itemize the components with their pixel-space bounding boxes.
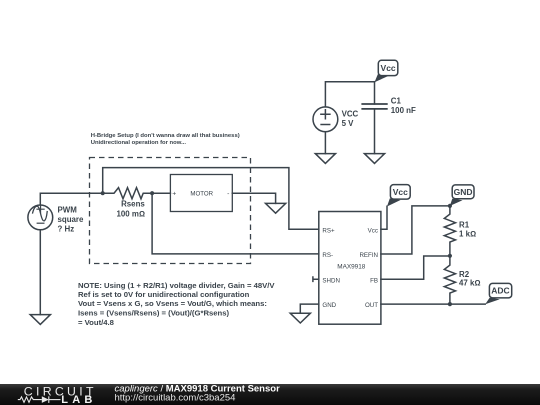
svg-text:1 kΩ: 1 kΩ <box>459 229 476 238</box>
svg-text:GND: GND <box>454 187 473 197</box>
svg-text:square: square <box>58 215 84 224</box>
svg-text:? Hz: ? Hz <box>58 225 75 234</box>
svg-text:Ref is set to 0V for unidirect: Ref is set to 0V for unidirectional conf… <box>78 290 250 299</box>
svg-text:NOTE: Using (1 + R2/R1) voltag: NOTE: Using (1 + R2/R1) voltage divider,… <box>78 281 275 290</box>
svg-text:100 nF: 100 nF <box>391 106 416 115</box>
svg-text:ADC: ADC <box>491 286 509 296</box>
svg-text:MAX9918: MAX9918 <box>337 264 366 271</box>
svg-text:100 mΩ: 100 mΩ <box>117 210 145 219</box>
svg-text:REFIN: REFIN <box>359 252 378 259</box>
svg-text:Rsens: Rsens <box>121 199 145 208</box>
svg-text:VCC: VCC <box>342 110 359 119</box>
svg-text:5 V: 5 V <box>342 119 355 128</box>
svg-text:= Vout/4.8: = Vout/4.8 <box>78 318 115 327</box>
svg-text:Vcc: Vcc <box>381 63 396 73</box>
svg-text:R2: R2 <box>459 270 470 279</box>
svg-text:GND: GND <box>322 302 336 309</box>
svg-text:FB: FB <box>370 277 378 284</box>
svg-text:LAB: LAB <box>61 394 96 405</box>
svg-text:MOTOR: MOTOR <box>190 190 213 197</box>
svg-text:Vout = Vsens x G, so Vsens = V: Vout = Vsens x G, so Vsens = Vout/G, whi… <box>78 299 267 308</box>
svg-text:R1: R1 <box>459 220 470 229</box>
svg-text:C1: C1 <box>391 96 402 105</box>
svg-text:+: + <box>172 191 176 198</box>
svg-text:Isens = (Vsens/Rsens) = (Vout): Isens = (Vsens/Rsens) = (Vout)/(G*Rsens) <box>78 309 230 318</box>
svg-text:OUT: OUT <box>365 302 378 309</box>
svg-text:SHDN: SHDN <box>322 277 340 284</box>
svg-text:Unidirectional operation for n: Unidirectional operation for now... <box>91 140 187 146</box>
svg-text:Vcc: Vcc <box>393 187 408 197</box>
svg-text:-: - <box>227 191 229 198</box>
svg-text:http://circuitlab.com/c3ba254: http://circuitlab.com/c3ba254 <box>115 393 236 404</box>
svg-text:47 kΩ: 47 kΩ <box>459 279 480 288</box>
svg-text:RS+: RS+ <box>322 227 335 234</box>
svg-text:PWM: PWM <box>58 205 78 214</box>
svg-text:H-Bridge Setup (I don't wanna: H-Bridge Setup (I don't wanna draw all t… <box>91 133 240 139</box>
svg-text:RS-: RS- <box>322 252 333 259</box>
svg-text:Vcc: Vcc <box>368 227 378 234</box>
